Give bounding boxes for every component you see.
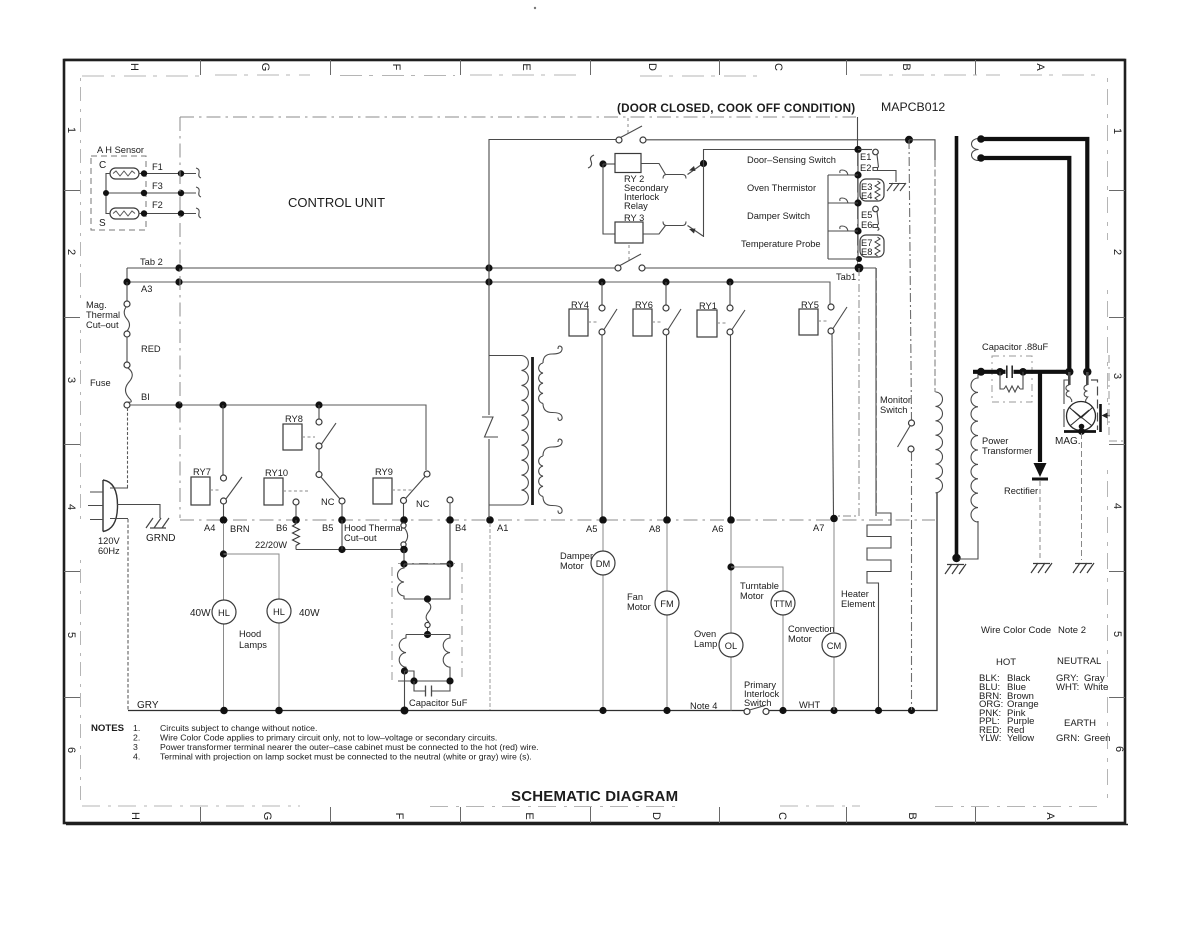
fusible link Z bbox=[482, 417, 498, 437]
capacitor 5uF bbox=[414, 681, 450, 697]
temperature probe E7/E8 capsule bbox=[860, 235, 884, 257]
svg-text:Hood Thermal: Hood Thermal bbox=[344, 523, 403, 533]
svg-text:FM: FM bbox=[660, 599, 673, 609]
svg-text:Motor: Motor bbox=[627, 602, 651, 612]
damper switch E5/E6 bbox=[873, 206, 879, 230]
svg-text:E5: E5 bbox=[861, 210, 872, 220]
wire GRY neutral drop bbox=[127, 519, 129, 710]
svg-text:A6: A6 bbox=[712, 524, 723, 534]
wire fan mid link bbox=[404, 564, 450, 599]
node E4 junction bbox=[854, 199, 861, 206]
wire RY2 top to B column bbox=[646, 139, 909, 141]
primary interlock switch bbox=[744, 706, 769, 715]
svg-text:RY9: RY9 bbox=[375, 467, 393, 477]
node rail right filament bbox=[1083, 368, 1091, 376]
magnetron case bracket right bbox=[1091, 380, 1098, 430]
relay RY9 bbox=[373, 467, 412, 504]
svg-text:Circuits subject to change wit: Circuits subject to change without notic… bbox=[160, 723, 317, 733]
NOTES bbox=[91, 723, 539, 762]
inner dashed margin lines (scan artifacts) bbox=[81, 75, 1108, 807]
wire B4 to fan bbox=[449, 523, 451, 564]
ground rectifier bbox=[1031, 563, 1052, 573]
svg-text:Damper: Damper bbox=[560, 551, 593, 561]
wire A3 rail bbox=[127, 282, 830, 305]
wire bottom GRY rail bbox=[128, 710, 744, 712]
connector hook F1 bbox=[196, 168, 201, 178]
svg-text:D: D bbox=[646, 63, 658, 71]
svg-text:Element: Element bbox=[841, 599, 876, 609]
node A4 bbox=[220, 516, 228, 524]
svg-text:OL: OL bbox=[725, 641, 737, 651]
svg-text:B: B bbox=[900, 63, 912, 70]
svg-text:HOT: HOT bbox=[996, 657, 1016, 668]
ground at door switch bbox=[887, 183, 906, 191]
node A3 left bbox=[123, 278, 130, 285]
node A6 bbox=[727, 516, 735, 524]
svg-text:CM: CM bbox=[827, 641, 841, 651]
mag thermal cut-out bbox=[124, 282, 130, 362]
svg-text:120V: 120V bbox=[98, 536, 121, 546]
svg-text:A8: A8 bbox=[649, 524, 660, 534]
border frame bbox=[64, 59, 1128, 824]
filament winding (top) bbox=[972, 139, 979, 161]
svg-text:Switch: Switch bbox=[880, 405, 907, 415]
frame tick marks left bbox=[64, 191, 80, 698]
svg-text:1: 1 bbox=[1111, 128, 1123, 134]
label Hood Thermal Cut-out bbox=[344, 523, 403, 543]
WIRE COLOR CODE table bbox=[979, 625, 1110, 744]
label Monitor Switch bbox=[880, 395, 911, 415]
wire filament thick lower bbox=[981, 158, 1069, 368]
svg-text:E6: E6 bbox=[861, 220, 872, 230]
wire rectifier to ground bbox=[1039, 481, 1041, 560]
node B4 bbox=[446, 516, 454, 524]
hood fan motor dashed box bbox=[392, 563, 462, 680]
wire B5 stub bbox=[341, 504, 343, 518]
switch RY3 blade bbox=[620, 254, 641, 266]
svg-text:A H Sensor: A H Sensor bbox=[97, 145, 144, 155]
node sensor common bbox=[103, 190, 109, 196]
connector hook thermistor bbox=[840, 170, 848, 175]
node BI RY8 bbox=[315, 401, 322, 408]
wire magnetron ground lead bbox=[1081, 433, 1083, 560]
svg-text:Convection: Convection bbox=[788, 624, 835, 634]
wire A5 column bbox=[602, 523, 604, 710]
magnetron tube MAG bbox=[1067, 402, 1096, 431]
svg-text:G: G bbox=[259, 63, 271, 72]
node A3 boundary bbox=[175, 278, 182, 285]
label Heater Element bbox=[841, 589, 876, 609]
svg-text:22/20W: 22/20W bbox=[255, 540, 287, 550]
svg-text:(DOOR CLOSED, COOK OFF CONDITI: (DOOR CLOSED, COOK OFF CONDITION) bbox=[617, 102, 855, 115]
node HL2 bottom bbox=[275, 707, 283, 715]
LV secondary lower bbox=[539, 439, 563, 513]
relay RY5 bbox=[799, 300, 847, 517]
wire F1 line bbox=[139, 173, 196, 175]
rectifier arrow bbox=[1034, 463, 1047, 477]
svg-text:CONTROL UNIT: CONTROL UNIT bbox=[288, 195, 385, 210]
node B5 bbox=[338, 516, 346, 524]
svg-text:Turntable: Turntable bbox=[740, 581, 779, 591]
node B column top bbox=[905, 136, 913, 144]
svg-text:Cut–out: Cut–out bbox=[344, 533, 377, 543]
svg-text:F: F bbox=[393, 813, 405, 820]
svg-text:Damper Switch: Damper Switch bbox=[747, 211, 810, 221]
row numbers right (rotated) bbox=[1111, 128, 1125, 752]
node A3 riser crossing bbox=[485, 278, 492, 285]
connector hook F3 bbox=[196, 187, 201, 197]
sensor resistor S (capsule) bbox=[110, 208, 139, 219]
svg-text:Lamps: Lamps bbox=[239, 640, 267, 650]
connector hook probe bbox=[840, 226, 848, 231]
node A8 bottom bbox=[663, 707, 670, 714]
node RY2 coil left bbox=[599, 160, 606, 167]
svg-text:4: 4 bbox=[1111, 503, 1123, 509]
svg-text:Tab 2: Tab 2 bbox=[140, 257, 163, 267]
svg-text:3: 3 bbox=[1111, 373, 1123, 379]
wire Tab2 corner drop bbox=[126, 268, 128, 282]
svg-text:Wire Color Code applies to pri: Wire Color Code applies to primary circu… bbox=[160, 733, 497, 743]
label Damper Motor bbox=[560, 551, 593, 571]
node A6 branch bbox=[727, 563, 734, 570]
wire heater feed drop bbox=[876, 268, 878, 513]
node fan left bottom bbox=[401, 667, 408, 674]
node Tab2 boundary bbox=[175, 264, 182, 271]
svg-text:WHT: WHT bbox=[799, 700, 820, 710]
node filament bottom bbox=[977, 154, 985, 162]
switch RY2 top blade bbox=[621, 126, 643, 138]
node HL1 bottom bbox=[220, 707, 228, 715]
node A3-RY6 bbox=[662, 278, 669, 285]
wire Tab2 rail right of switch bbox=[645, 268, 876, 516]
label Oven Lamp bbox=[694, 629, 717, 649]
svg-text:6: 6 bbox=[65, 747, 77, 753]
svg-text:G: G bbox=[261, 812, 273, 821]
control unit boundary left bbox=[179, 117, 181, 518]
svg-text:2: 2 bbox=[65, 249, 77, 255]
relay RY4 bbox=[569, 282, 617, 517]
svg-text:3: 3 bbox=[65, 377, 77, 383]
contact B4 top bbox=[447, 497, 453, 503]
ground core bbox=[945, 564, 966, 574]
svg-text:Fan: Fan bbox=[627, 592, 643, 602]
magnetron filament left lead bbox=[1066, 372, 1072, 402]
svg-text:A3: A3 bbox=[141, 284, 152, 294]
svg-text:WHT:: WHT: bbox=[1056, 682, 1079, 693]
svg-text:Mag.: Mag. bbox=[86, 300, 107, 310]
svg-text:Power: Power bbox=[982, 436, 1008, 446]
wire LV transformer left bbox=[488, 268, 490, 415]
svg-text:DM: DM bbox=[596, 559, 610, 569]
node A5 bbox=[599, 516, 607, 524]
svg-text:Relay: Relay bbox=[624, 201, 648, 211]
wire F3 line bbox=[106, 192, 196, 194]
node Q2 collector bbox=[700, 160, 707, 167]
node rail left filament bbox=[1065, 368, 1073, 376]
svg-text:Oven Thermistor: Oven Thermistor bbox=[747, 183, 816, 193]
contact RY9 NC (from BI) bbox=[424, 471, 430, 477]
hood fan start winding right bbox=[443, 635, 450, 680]
node heater bottom bbox=[875, 707, 882, 714]
svg-text:E2: E2 bbox=[860, 163, 871, 173]
svg-text:Note 4: Note 4 bbox=[690, 701, 717, 711]
node BI boundary bbox=[175, 401, 182, 408]
wire RY2-RY3 left link bbox=[603, 164, 615, 234]
svg-text:MAG.: MAG. bbox=[1055, 436, 1081, 447]
svg-text:S: S bbox=[99, 218, 106, 229]
node F2 boundary bbox=[178, 210, 184, 216]
power transformer core bbox=[955, 136, 959, 557]
svg-text:H: H bbox=[129, 812, 141, 820]
wire fan lower top link bbox=[406, 634, 450, 636]
svg-text:E8: E8 bbox=[861, 247, 872, 257]
wire HV bottom return bbox=[959, 521, 978, 559]
node filament top bbox=[977, 135, 985, 143]
node A7 bbox=[830, 515, 838, 523]
oven lamp OL bbox=[719, 633, 743, 657]
svg-text:Fuse: Fuse bbox=[90, 378, 111, 388]
svg-text:HL: HL bbox=[218, 608, 230, 618]
relay RY3 coil box bbox=[615, 222, 643, 243]
svg-text:2.: 2. bbox=[133, 733, 140, 743]
svg-text:A: A bbox=[1034, 63, 1046, 71]
node fan right top bbox=[446, 560, 453, 567]
svg-text:RY8: RY8 bbox=[285, 414, 303, 424]
RY2 interlock circuit: left riser bbox=[489, 140, 618, 269]
wire primary bottom link bbox=[489, 504, 522, 506]
power plug 120V 60Hz bbox=[88, 480, 160, 532]
connector hook damper bbox=[840, 198, 848, 203]
svg-text:SCHEMATIC DIAGRAM: SCHEMATIC DIAGRAM bbox=[511, 788, 678, 805]
node Tab2 transformer feed bbox=[485, 264, 492, 271]
wire A7 column bbox=[833, 522, 835, 710]
label RY 2 Secondary Interlock Relay bbox=[624, 174, 669, 211]
wire B5 down bbox=[341, 520, 343, 550]
node E8 junction bbox=[856, 256, 862, 262]
node fan protector bottom bbox=[424, 631, 431, 638]
power transformer primary coil bbox=[936, 392, 943, 493]
fan thermal protector bbox=[425, 602, 431, 632]
switch RY9 blade bbox=[406, 477, 425, 499]
switch RY3 on Tab2 rail contacts bbox=[615, 265, 621, 271]
node RY9 common bbox=[400, 516, 408, 524]
control unit boundary bottom (terminal row) bbox=[180, 519, 935, 521]
frame tick marks bottom bbox=[201, 807, 976, 823]
LV transformer core bbox=[531, 357, 534, 505]
wire Tab2 rail bbox=[127, 267, 618, 269]
magnetron case dash right bbox=[1109, 355, 1125, 441]
svg-text:Thermal: Thermal bbox=[86, 310, 120, 320]
svg-text:TTM: TTM bbox=[774, 599, 793, 609]
wire F2 line bbox=[139, 213, 196, 215]
svg-text:1.: 1. bbox=[133, 723, 140, 733]
node hood fan top bbox=[400, 560, 407, 567]
svg-text:Capacitor .88uF: Capacitor .88uF bbox=[982, 342, 1048, 352]
svg-text:Wire Color Code: Wire Color Code bbox=[981, 625, 1051, 636]
node HV coil top bbox=[977, 368, 985, 376]
svg-text:40W: 40W bbox=[299, 608, 320, 619]
wire A8 column bbox=[666, 523, 668, 710]
node A7 bottom bbox=[830, 707, 837, 714]
svg-text:Motor: Motor bbox=[788, 634, 812, 644]
node A1 bbox=[486, 516, 494, 524]
svg-text:2: 2 bbox=[1111, 249, 1123, 255]
label Primary Interlock Switch bbox=[744, 680, 779, 708]
svg-text:White: White bbox=[1084, 682, 1108, 693]
label 120V 60Hz bbox=[98, 536, 121, 556]
magnetron case bracket left bbox=[1064, 380, 1069, 427]
resistor 22/20W bbox=[293, 520, 300, 550]
wire A1 column down bbox=[489, 523, 491, 710]
ground GRND symbol bbox=[146, 518, 169, 528]
wire sensor left common bbox=[106, 174, 110, 214]
contact B5 bbox=[339, 498, 345, 504]
magnetron antenna bar bbox=[1099, 404, 1102, 432]
mech link dash top bbox=[627, 118, 629, 134]
svg-text:Motor: Motor bbox=[740, 591, 764, 601]
capacitor dashed box bbox=[992, 356, 1032, 402]
svg-text:Rectifier: Rectifier bbox=[1004, 486, 1038, 496]
svg-text:E: E bbox=[520, 63, 532, 70]
node A3-RY1 bbox=[726, 278, 733, 285]
svg-text:B: B bbox=[906, 812, 918, 819]
row numbers left (rotated) bbox=[65, 127, 77, 753]
wire B6-B5-hood link bbox=[296, 549, 404, 551]
label Power Transformer bbox=[982, 436, 1032, 456]
svg-text:Terminal with projection on la: Terminal with projection on lamp socket … bbox=[160, 752, 532, 762]
transistor Q2 (RY2 driver) bbox=[641, 164, 703, 179]
svg-text:E: E bbox=[523, 812, 535, 819]
mech link dash RY3 bbox=[628, 245, 630, 262]
svg-text:HL: HL bbox=[273, 607, 285, 617]
LV secondary upper bbox=[539, 346, 563, 420]
relay RY2 coil box bbox=[615, 154, 641, 173]
node B6 bbox=[292, 516, 300, 524]
node fan rail bbox=[401, 707, 409, 715]
node B5 lower bbox=[338, 546, 345, 553]
connector hook F2 bbox=[196, 208, 201, 218]
wire RY9 common stub bbox=[403, 504, 405, 519]
svg-text:1: 1 bbox=[65, 127, 77, 133]
svg-text:RY10: RY10 bbox=[265, 468, 288, 478]
node A5 bottom bbox=[599, 707, 606, 714]
svg-text:4.: 4. bbox=[133, 752, 140, 762]
svg-text:Power transformer terminal nea: Power transformer terminal nearer the ou… bbox=[160, 742, 539, 752]
LV transformer primary coil bbox=[522, 356, 529, 506]
column letters bottom (rotated) bbox=[129, 812, 1056, 821]
node core ground bbox=[952, 554, 960, 562]
wire primary feed lower bbox=[934, 160, 936, 392]
node BI RY7 bbox=[219, 401, 226, 408]
switch RY10 blade to B5 bbox=[321, 477, 340, 499]
node A8 bbox=[663, 516, 671, 524]
svg-text:NOTES: NOTES bbox=[91, 723, 125, 734]
label Fan Motor bbox=[627, 592, 651, 612]
wire fan top link bbox=[404, 563, 450, 565]
node E6 junction bbox=[854, 227, 861, 234]
svg-text:Temperature Probe: Temperature Probe bbox=[741, 239, 821, 249]
svg-text:C: C bbox=[99, 160, 106, 171]
svg-text:B4: B4 bbox=[455, 523, 466, 533]
magnetron filament right lead bbox=[1084, 372, 1088, 402]
svg-text:F3: F3 bbox=[152, 181, 163, 191]
node monitor bottom bbox=[908, 707, 915, 714]
wire RY2 coil feed bbox=[603, 163, 615, 165]
svg-text:B6: B6 bbox=[276, 523, 287, 533]
svg-text:RED: RED bbox=[141, 344, 161, 354]
svg-text:Heater: Heater bbox=[841, 589, 869, 599]
svg-text:F: F bbox=[390, 64, 402, 71]
magnetron bottom bar bbox=[1064, 430, 1096, 433]
svg-text:NC: NC bbox=[416, 499, 430, 509]
node magnetron bottom bbox=[1078, 428, 1085, 435]
svg-text:Motor: Motor bbox=[560, 561, 584, 571]
wire A6 column bbox=[730, 523, 732, 711]
node cap left bbox=[410, 677, 417, 684]
svg-text:A1: A1 bbox=[497, 523, 508, 533]
svg-text:A5: A5 bbox=[586, 524, 597, 534]
svg-text:40W: 40W bbox=[190, 608, 211, 619]
hood lamp HL1 bbox=[212, 600, 236, 624]
connector hook RY2 bbox=[588, 155, 594, 168]
svg-text:6: 6 bbox=[1113, 746, 1125, 752]
label Turntable Motor bbox=[740, 581, 779, 601]
transistor Q3 (RY3 driver) bbox=[643, 222, 703, 237]
svg-text:Oven: Oven bbox=[694, 629, 716, 639]
node cap right bbox=[446, 677, 453, 684]
rectifier bar bbox=[1032, 478, 1048, 481]
wire monitor column bbox=[909, 140, 912, 710]
svg-text:B5: B5 bbox=[322, 523, 333, 533]
relay RY8 bbox=[283, 405, 336, 471]
svg-text:C: C bbox=[772, 63, 784, 71]
frame tick marks top bbox=[201, 60, 976, 75]
fuse bbox=[124, 362, 132, 408]
node cap left bbox=[996, 368, 1004, 376]
damper motor DM bbox=[591, 551, 615, 575]
wire hood fan feed bbox=[403, 550, 405, 563]
node E1 feed bbox=[854, 146, 861, 153]
node F2-S junction bbox=[141, 210, 147, 216]
svg-text:Capacitor 5uF: Capacitor 5uF bbox=[409, 698, 468, 708]
svg-text:BI: BI bbox=[141, 392, 150, 402]
hood lamp HL2 bbox=[267, 599, 291, 623]
svg-text:4: 4 bbox=[65, 504, 77, 510]
svg-text:EARTH: EARTH bbox=[1064, 718, 1096, 729]
svg-text:MAPCB012: MAPCB012 bbox=[881, 100, 945, 114]
svg-text:H: H bbox=[128, 63, 140, 71]
switch RY10 changeover pivot bbox=[316, 472, 322, 478]
hood fan start winding left bbox=[399, 635, 406, 671]
wire primary top link bbox=[489, 355, 522, 357]
wire B4 stub bbox=[449, 503, 451, 518]
bleed resistor across cap bbox=[1000, 372, 1023, 392]
relay RY10 bbox=[264, 468, 310, 505]
door sensing switch E1/E2 bbox=[858, 149, 896, 182]
control unit boundary right bbox=[857, 152, 859, 265]
svg-text:Cut–out: Cut–out bbox=[86, 320, 119, 330]
svg-text:GRND: GRND bbox=[146, 533, 175, 544]
node Tab1 bbox=[855, 264, 864, 273]
bracket bus left of sensors bbox=[828, 175, 858, 259]
svg-text:D: D bbox=[650, 812, 662, 820]
svg-text:C: C bbox=[776, 812, 788, 820]
svg-text:Green: Green bbox=[1084, 733, 1110, 744]
heater element bbox=[867, 513, 891, 710]
relay RY1 bbox=[697, 282, 745, 517]
A H Sensor dashed box bbox=[91, 156, 146, 230]
hood thermal cutout element bbox=[401, 523, 408, 547]
